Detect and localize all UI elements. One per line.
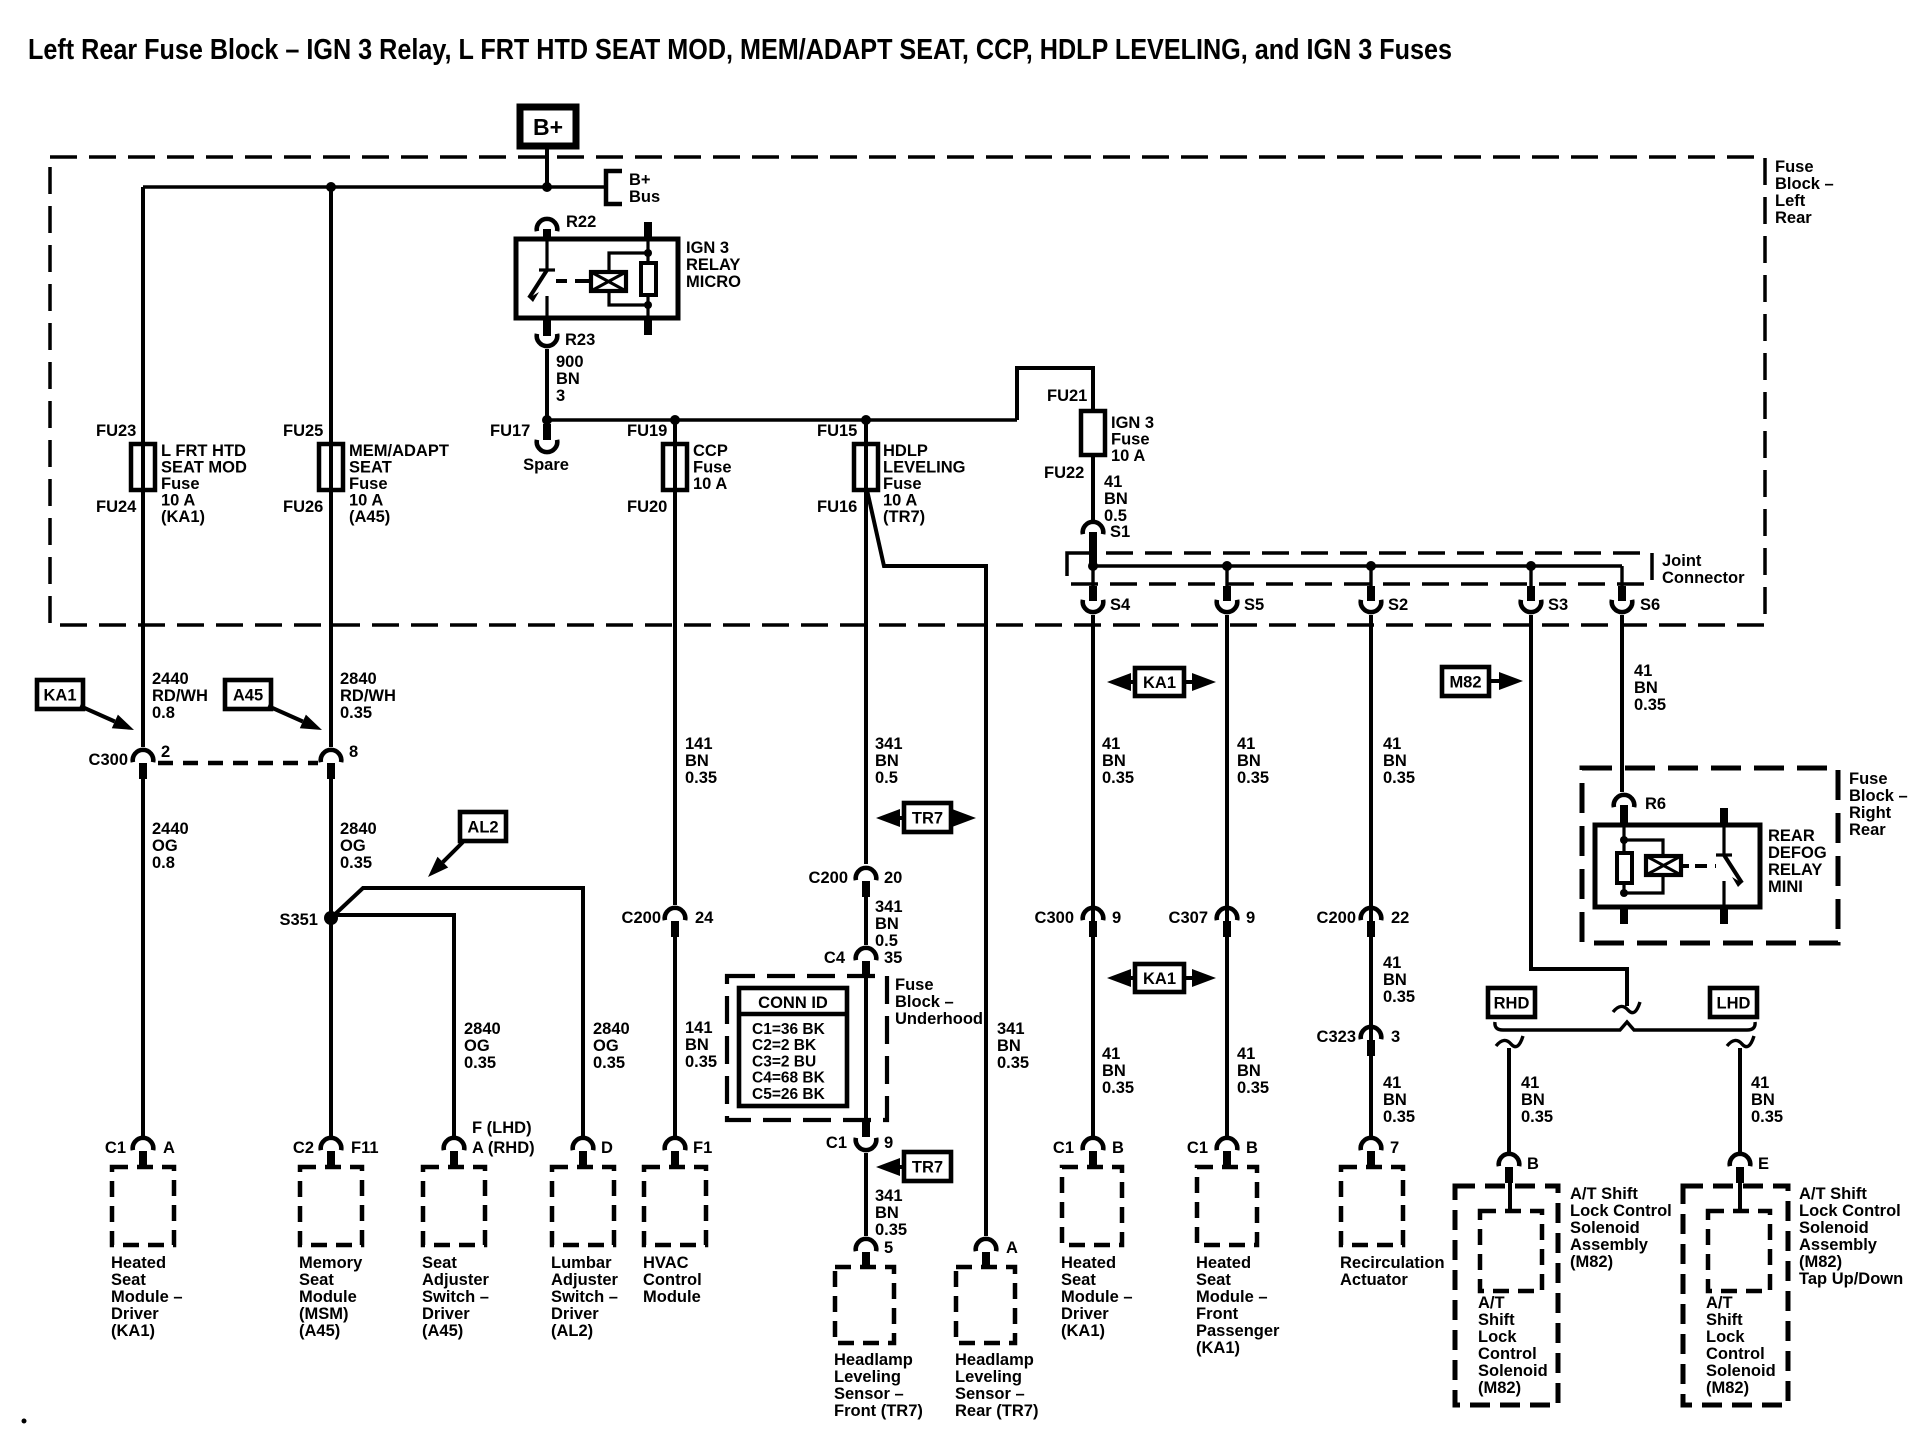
junction on B+ bus at FU25 drop (326, 182, 336, 192)
svg-text:Connector: Connector (1662, 569, 1745, 587)
tag KA1 double pointer lower (1117, 976, 1206, 980)
fuse block - underhood boundary (727, 976, 887, 1120)
relay resistor element (641, 263, 656, 295)
relay2 coil pin bottom stub (1620, 906, 1628, 924)
svg-text:Solenoid: Solenoid (1799, 1219, 1869, 1237)
svg-text:Rear: Rear (1775, 209, 1812, 227)
wire S6 drop (1620, 615, 1624, 792)
svg-text:KA1: KA1 (1143, 674, 1176, 692)
svg-text:TR7: TR7 (912, 1159, 943, 1177)
svg-text:2440: 2440 (152, 670, 189, 688)
svg-text:BN: BN (1102, 752, 1126, 770)
svg-text:2840: 2840 (340, 670, 377, 688)
svg-text:0.5: 0.5 (875, 932, 898, 950)
svg-text:(MSM): (MSM) (299, 1305, 348, 1323)
svg-text:BN: BN (875, 1204, 899, 1222)
svg-text:Seat: Seat (299, 1271, 334, 1289)
junction at FU15 drop (861, 415, 871, 425)
svg-text:REAR: REAR (1768, 827, 1815, 845)
relay coil pin top stub (644, 222, 652, 240)
splice S5 (1225, 566, 1228, 588)
svg-text:Right: Right (1849, 804, 1892, 822)
splice S351 (324, 911, 338, 925)
wire R23 to ignition bus (545, 349, 549, 422)
module heated seat front passenger (1197, 1167, 1257, 1245)
wire B+ feed (545, 146, 549, 190)
svg-text:FU20: FU20 (627, 498, 667, 516)
svg-text:HDLP: HDLP (883, 442, 928, 460)
svg-text:RD/WH: RD/WH (152, 687, 208, 705)
connector C200 pin 20 (856, 868, 877, 880)
connector C200 pin 22 (1361, 908, 1382, 920)
fuse block - left rear boundary (50, 157, 1765, 625)
connector heated seat driver C1 pin A (133, 1138, 154, 1150)
svg-text:7: 7 (1390, 1139, 1399, 1157)
svg-text:0.35: 0.35 (1521, 1108, 1553, 1126)
wire into AT solenoid LHD (1738, 1180, 1742, 1213)
svg-text:10 A: 10 A (161, 492, 195, 510)
svg-text:Leveling: Leveling (955, 1368, 1022, 1386)
tag TR7 pointer at C1-9 (898, 1165, 904, 1169)
wire into AT solenoid RHD (1508, 1180, 1512, 1213)
svg-text:M82: M82 (1449, 674, 1481, 692)
svg-text:BN: BN (875, 915, 899, 933)
svg-text:0.35: 0.35 (340, 854, 372, 872)
svg-text:BN: BN (1237, 752, 1261, 770)
svg-text:Heated: Heated (111, 1254, 166, 1272)
svg-text:24: 24 (695, 909, 714, 927)
tag AL2 circuit pointer (460, 812, 506, 841)
svg-text:F1: F1 (693, 1139, 712, 1157)
svg-text:RD/WH: RD/WH (340, 687, 396, 705)
svg-text:(KA1): (KA1) (161, 508, 205, 526)
connector lumbar adjuster pin D (573, 1138, 594, 1150)
svg-text:C3=2 BU: C3=2 BU (752, 1053, 816, 1070)
svg-text:Block –: Block – (895, 993, 954, 1011)
svg-text:Left: Left (1775, 192, 1806, 210)
svg-text:341: 341 (875, 898, 903, 916)
svg-text:(KA1): (KA1) (111, 1322, 155, 1340)
svg-text:B: B (1527, 1155, 1539, 1173)
svg-text:3: 3 (556, 387, 565, 405)
wire memory seat drop (329, 776, 333, 1136)
svg-text:S2: S2 (1388, 596, 1408, 614)
svg-text:(M82): (M82) (1570, 1253, 1613, 1271)
relay switch pin bottom stub (543, 317, 551, 332)
svg-text:Switch –: Switch – (422, 1288, 489, 1306)
svg-text:E: E (1758, 1155, 1769, 1173)
svg-text:Rear: Rear (1849, 821, 1886, 839)
svg-text:FU15: FU15 (817, 422, 857, 440)
svg-text:Solenoid: Solenoid (1706, 1362, 1776, 1380)
svg-text:Front (TR7): Front (TR7) (834, 1402, 923, 1420)
svg-text:Module –: Module – (111, 1288, 183, 1306)
relay coil pin bottom stub (644, 317, 652, 335)
svg-text:41: 41 (1521, 1074, 1539, 1092)
wire S5 drop (1225, 615, 1229, 1136)
svg-text:Adjuster: Adjuster (551, 1271, 619, 1289)
svg-text:C323: C323 (1317, 1028, 1356, 1046)
svg-text:R6: R6 (1645, 795, 1666, 813)
wire break RHD branch top (1496, 1036, 1523, 1047)
svg-text:(KA1): (KA1) (1196, 1339, 1240, 1357)
svg-text:C4=68 BK: C4=68 BK (752, 1070, 826, 1087)
svg-text:OG: OG (152, 837, 178, 855)
svg-text:FU22: FU22 (1044, 464, 1084, 482)
svg-text:Leveling: Leveling (834, 1368, 901, 1386)
svg-text:A45: A45 (233, 687, 263, 705)
svg-text:0.35: 0.35 (464, 1054, 496, 1072)
svg-text:C200: C200 (809, 869, 848, 887)
svg-text:DEFOG: DEFOG (1768, 844, 1827, 862)
svg-text:0.35: 0.35 (685, 1053, 717, 1071)
svg-text:5: 5 (884, 1239, 893, 1257)
svg-text:Front: Front (1196, 1305, 1239, 1323)
svg-text:Solenoid: Solenoid (1478, 1362, 1548, 1380)
connector C300 in-line dashed link (158, 761, 318, 766)
svg-text:Solenoid: Solenoid (1570, 1219, 1640, 1237)
svg-text:RELAY: RELAY (1768, 861, 1822, 879)
svg-text:Switch –: Switch – (551, 1288, 618, 1306)
svg-text:Fuse: Fuse (1775, 158, 1814, 176)
connector seat adjuster pin F LHD / A RHD (444, 1138, 465, 1150)
wire HVAC drop (673, 933, 677, 1136)
module memory seat MSM (300, 1167, 362, 1245)
svg-text:0.35: 0.35 (1237, 769, 1269, 787)
svg-text:Shift: Shift (1478, 1311, 1515, 1329)
svg-text:20: 20 (884, 869, 902, 887)
svg-text:Driver: Driver (111, 1305, 159, 1323)
svg-text:0.35: 0.35 (1102, 1079, 1134, 1097)
svg-text:A/T: A/T (1478, 1294, 1505, 1312)
svg-text:FU24: FU24 (96, 498, 137, 516)
svg-text:41: 41 (1383, 954, 1401, 972)
svg-text:OG: OG (340, 837, 366, 855)
svg-text:BN: BN (1383, 971, 1407, 989)
module headlamp leveling sensor front (835, 1267, 894, 1343)
svg-text:0.35: 0.35 (1237, 1079, 1269, 1097)
svg-text:L FRT HTD: L FRT HTD (161, 442, 246, 460)
relay2 switch contact upper (1722, 826, 1725, 854)
svg-text:S351: S351 (279, 911, 318, 929)
relay IGN 3 RELAY MICRO body (516, 239, 678, 318)
svg-text:0.8: 0.8 (152, 854, 175, 872)
svg-text:CCP: CCP (693, 442, 728, 460)
svg-text:Lock: Lock (1706, 1328, 1745, 1346)
svg-text:Headlamp: Headlamp (834, 1351, 913, 1369)
svg-text:BN: BN (1104, 490, 1128, 508)
svg-text:FU17: FU17 (490, 422, 530, 440)
svg-text:Lock Control: Lock Control (1570, 1202, 1672, 1220)
svg-text:Fuse: Fuse (693, 459, 732, 477)
connector S1 (1083, 522, 1104, 534)
svg-text:(TR7): (TR7) (883, 508, 925, 526)
svg-text:BN: BN (685, 752, 709, 770)
brace RHD/LHD split (1495, 1022, 1755, 1030)
svg-text:Fuse: Fuse (161, 475, 200, 493)
svg-text:C307: C307 (1169, 909, 1208, 927)
connector AT shift lock RHD pin B (1499, 1154, 1520, 1166)
svg-text:Sensor –: Sensor – (834, 1385, 904, 1403)
svg-text:Sensor –: Sensor – (955, 1385, 1025, 1403)
svg-text:Actuator: Actuator (1340, 1271, 1408, 1289)
wire S4 drop (1091, 615, 1095, 1136)
relay2 coil-resistor loop (1624, 840, 1663, 893)
svg-text:41: 41 (1102, 735, 1120, 753)
splice S3 (1529, 566, 1532, 588)
svg-text:Fuse: Fuse (895, 976, 934, 994)
svg-text:C1: C1 (826, 1134, 847, 1152)
wire HDLP second branch to rear sensor (867, 490, 986, 1236)
svg-text:Spare: Spare (523, 456, 569, 474)
svg-text:Fuse: Fuse (349, 475, 388, 493)
svg-text:Seat: Seat (422, 1254, 457, 1272)
svg-text:Seat: Seat (111, 1271, 146, 1289)
connector heated seat driver C1 pin B (1083, 1138, 1104, 1150)
relay2 mechanical link dashes (1695, 864, 1716, 868)
svg-text:B+: B+ (629, 171, 651, 189)
relay loop junction top (644, 249, 652, 257)
svg-text:KA1: KA1 (43, 687, 76, 705)
wire break LHD branch top (1727, 1036, 1754, 1047)
svg-text:Heated: Heated (1061, 1254, 1116, 1272)
svg-text:(A45): (A45) (349, 508, 390, 526)
svg-text:Shift: Shift (1706, 1311, 1743, 1329)
junction of B+ feed and bus (542, 182, 552, 192)
svg-text:2440: 2440 (152, 820, 189, 838)
svg-text:Adjuster: Adjuster (422, 1271, 490, 1289)
svg-text:C4: C4 (824, 949, 846, 967)
svg-text:41: 41 (1102, 1045, 1120, 1063)
tag RHD (1488, 988, 1535, 1017)
svg-text:CONN ID: CONN ID (758, 994, 828, 1012)
svg-text:HVAC: HVAC (643, 1254, 689, 1272)
svg-text:Heated: Heated (1196, 1254, 1251, 1272)
table CONN ID (739, 988, 847, 1106)
svg-text:BN: BN (875, 752, 899, 770)
svg-text:IGN 3: IGN 3 (1111, 414, 1154, 432)
svg-text:A/T: A/T (1706, 1294, 1733, 1312)
svg-text:MINI: MINI (1768, 878, 1803, 896)
svg-text:(A45): (A45) (422, 1322, 463, 1340)
svg-text:41: 41 (1237, 735, 1255, 753)
svg-text:0.35: 0.35 (1634, 696, 1666, 714)
connector C307 pin 9 (1217, 908, 1238, 920)
svg-text:Rear (TR7): Rear (TR7) (955, 1402, 1038, 1420)
svg-text:A/T Shift: A/T Shift (1799, 1185, 1867, 1203)
svg-text:0.35: 0.35 (1383, 769, 1415, 787)
wire S351 to seat adjuster switch (331, 915, 454, 1136)
module HVAC control module (644, 1167, 706, 1245)
svg-text:MEM/ADAPT: MEM/ADAPT (349, 442, 449, 460)
relay coil winding symbol (583, 279, 591, 283)
svg-text:Control: Control (643, 1271, 702, 1289)
wire C4 into underhood block (864, 973, 868, 1125)
svg-text:A: A (1006, 1239, 1018, 1257)
connector C200 pin 24 (665, 908, 686, 920)
svg-text:BN: BN (1383, 1091, 1407, 1109)
svg-text:Recirculation: Recirculation (1340, 1254, 1445, 1272)
wire FU21 to S1 (1091, 455, 1095, 522)
svg-text:0.35: 0.35 (340, 704, 372, 722)
svg-text:Lumbar: Lumbar (551, 1254, 612, 1272)
tag M82 pointer (1442, 667, 1489, 696)
svg-text:Seat: Seat (1061, 1271, 1096, 1289)
bus wire B+ (143, 185, 606, 188)
svg-text:B+: B+ (533, 114, 563, 140)
svg-text:41: 41 (1237, 1045, 1255, 1063)
svg-text:AL2: AL2 (467, 819, 498, 837)
joint connector boundary (1067, 553, 1652, 584)
svg-text:FU26: FU26 (283, 498, 323, 516)
wire S3 drop to branch point (1531, 615, 1627, 1006)
svg-text:2840: 2840 (464, 1020, 501, 1038)
connector AT shift lock LHD pin E (1730, 1154, 1751, 1166)
svg-text:3: 3 (1391, 1028, 1400, 1046)
svg-text:2840: 2840 (593, 1020, 630, 1038)
module AT shift lock control solenoid assembly LHD (1683, 1186, 1788, 1405)
wire break at branch (1613, 1002, 1640, 1013)
svg-text:BN: BN (1751, 1091, 1775, 1109)
svg-text:(M82): (M82) (1799, 1253, 1842, 1271)
fuse FU23/FU24 L FRT HTD SEAT MOD (131, 444, 155, 490)
connector C300 pin 8 (321, 750, 342, 762)
svg-text:OG: OG (464, 1037, 490, 1055)
svg-text:FU16: FU16 (817, 498, 857, 516)
connector R23 (537, 334, 558, 346)
svg-text:Headlamp: Headlamp (955, 1351, 1034, 1369)
svg-text:(M82): (M82) (1478, 1379, 1521, 1397)
svg-text:BN: BN (556, 370, 580, 388)
relay2 junction bottom (1620, 889, 1628, 897)
splice S2 (1369, 566, 1372, 588)
svg-text:IGN 3: IGN 3 (686, 239, 729, 257)
junction S2 on joint bus (1366, 561, 1376, 571)
svg-text:Module: Module (299, 1288, 357, 1306)
module heated seat driver left (112, 1167, 174, 1245)
relay2 switch contact lower (1722, 881, 1725, 907)
connector recirculation pin 7 (1361, 1138, 1382, 1150)
splice S6 (1620, 566, 1623, 588)
tag KA1 circuit pointer (37, 680, 83, 709)
svg-text:F (LHD): F (LHD) (472, 1119, 532, 1137)
svg-text:BN: BN (1383, 752, 1407, 770)
svg-text:Fuse: Fuse (883, 475, 922, 493)
svg-text:0.35: 0.35 (1751, 1108, 1783, 1126)
svg-text:2840: 2840 (340, 820, 377, 838)
svg-text:Memory: Memory (299, 1254, 363, 1272)
svg-text:Control: Control (1706, 1345, 1765, 1363)
relay switch blade (529, 270, 547, 298)
connector HVAC pin F1 (665, 1138, 686, 1150)
svg-text:Underhood: Underhood (895, 1010, 983, 1028)
svg-text:Left Rear Fuse Block – IGN 3 R: Left Rear Fuse Block – IGN 3 Relay, L FR… (28, 34, 1452, 66)
tag A45 circuit pointer (225, 680, 271, 709)
svg-text:C1: C1 (1053, 1139, 1074, 1157)
svg-text:Tap Up/Down: Tap Up/Down (1799, 1270, 1903, 1288)
module recirculation actuator (1341, 1167, 1403, 1245)
svg-text:A (RHD): A (RHD) (472, 1139, 535, 1157)
svg-text:Assembly: Assembly (1799, 1236, 1878, 1254)
svg-text:RELAY: RELAY (686, 256, 740, 274)
svg-text:341: 341 (875, 1187, 903, 1205)
svg-text:LEVELING: LEVELING (883, 459, 966, 477)
svg-text:(KA1): (KA1) (1061, 1322, 1105, 1340)
relay2 junction top (1620, 836, 1628, 844)
connector headlamp front pin 5 (856, 1239, 877, 1251)
joint connector bus (1093, 564, 1622, 567)
svg-text:S5: S5 (1244, 596, 1264, 614)
wire FU19 feed (673, 420, 677, 905)
svg-text:10 A: 10 A (883, 492, 917, 510)
relay switch contact upper (545, 239, 548, 269)
svg-text:MICRO: MICRO (686, 273, 741, 291)
svg-text:141: 141 (685, 735, 713, 753)
junction S5 on joint bus (1222, 561, 1232, 571)
relay REAR DEFOG RELAY MINI body (1595, 825, 1760, 907)
svg-text:0.35: 0.35 (1102, 769, 1134, 787)
svg-text:Joint: Joint (1662, 552, 1702, 570)
svg-text:B: B (1112, 1139, 1124, 1157)
svg-text:9: 9 (1112, 909, 1121, 927)
svg-text:BN: BN (685, 1036, 709, 1054)
svg-text:10 A: 10 A (1111, 447, 1145, 465)
wire FU25 feed (329, 187, 333, 747)
svg-text:(M82): (M82) (1706, 1379, 1749, 1397)
svg-text:B: B (1246, 1139, 1258, 1157)
svg-text:C300: C300 (1035, 909, 1074, 927)
svg-text:Fuse: Fuse (1849, 770, 1888, 788)
svg-text:SEAT MOD: SEAT MOD (161, 459, 247, 477)
svg-text:BN: BN (1521, 1091, 1545, 1109)
svg-text:FU23: FU23 (96, 422, 136, 440)
junction S1/S4 on joint bus (1088, 561, 1098, 571)
svg-text:9: 9 (1246, 909, 1255, 927)
wire C1-9 to sensor (864, 1153, 868, 1236)
splice S4 (1091, 566, 1094, 588)
connector memory seat C2 pin F11 (321, 1138, 342, 1150)
module AT shift lock control solenoid assembly RHD (1455, 1186, 1558, 1405)
svg-text:KA1: KA1 (1143, 970, 1176, 988)
svg-text:C5=26 BK: C5=26 BK (752, 1086, 826, 1103)
svg-text:A: A (163, 1139, 175, 1157)
relay2 switch pin top stub (1720, 808, 1728, 826)
wire heated seat driver drop (141, 776, 145, 1136)
connector headlamp rear pin A (976, 1239, 997, 1251)
connector heated seat passenger C1 pin B (1217, 1138, 1238, 1150)
wire S2 drop (1369, 615, 1373, 1136)
svg-text:Assembly: Assembly (1570, 1236, 1649, 1254)
relay2 resistor element (1617, 853, 1632, 883)
svg-text:S1: S1 (1110, 523, 1130, 541)
svg-text:FU19: FU19 (627, 422, 667, 440)
fuse FU19/FU20 CCP (663, 444, 687, 490)
connector R6 (1614, 795, 1635, 807)
svg-text:Control: Control (1478, 1345, 1537, 1363)
svg-text:D: D (601, 1139, 613, 1157)
relay2 switch blade (1724, 855, 1742, 883)
svg-text:141: 141 (685, 1019, 713, 1037)
svg-text:S6: S6 (1640, 596, 1660, 614)
tag LHD (1710, 988, 1757, 1017)
svg-text:BN: BN (1102, 1062, 1126, 1080)
svg-text:S4: S4 (1110, 596, 1131, 614)
svg-text:C1: C1 (1187, 1139, 1208, 1157)
svg-text:0.35: 0.35 (593, 1054, 625, 1072)
relay2 switch pin bottom stub (1720, 906, 1728, 924)
svg-text:RHD: RHD (1494, 995, 1530, 1013)
svg-text:R22: R22 (566, 213, 596, 231)
